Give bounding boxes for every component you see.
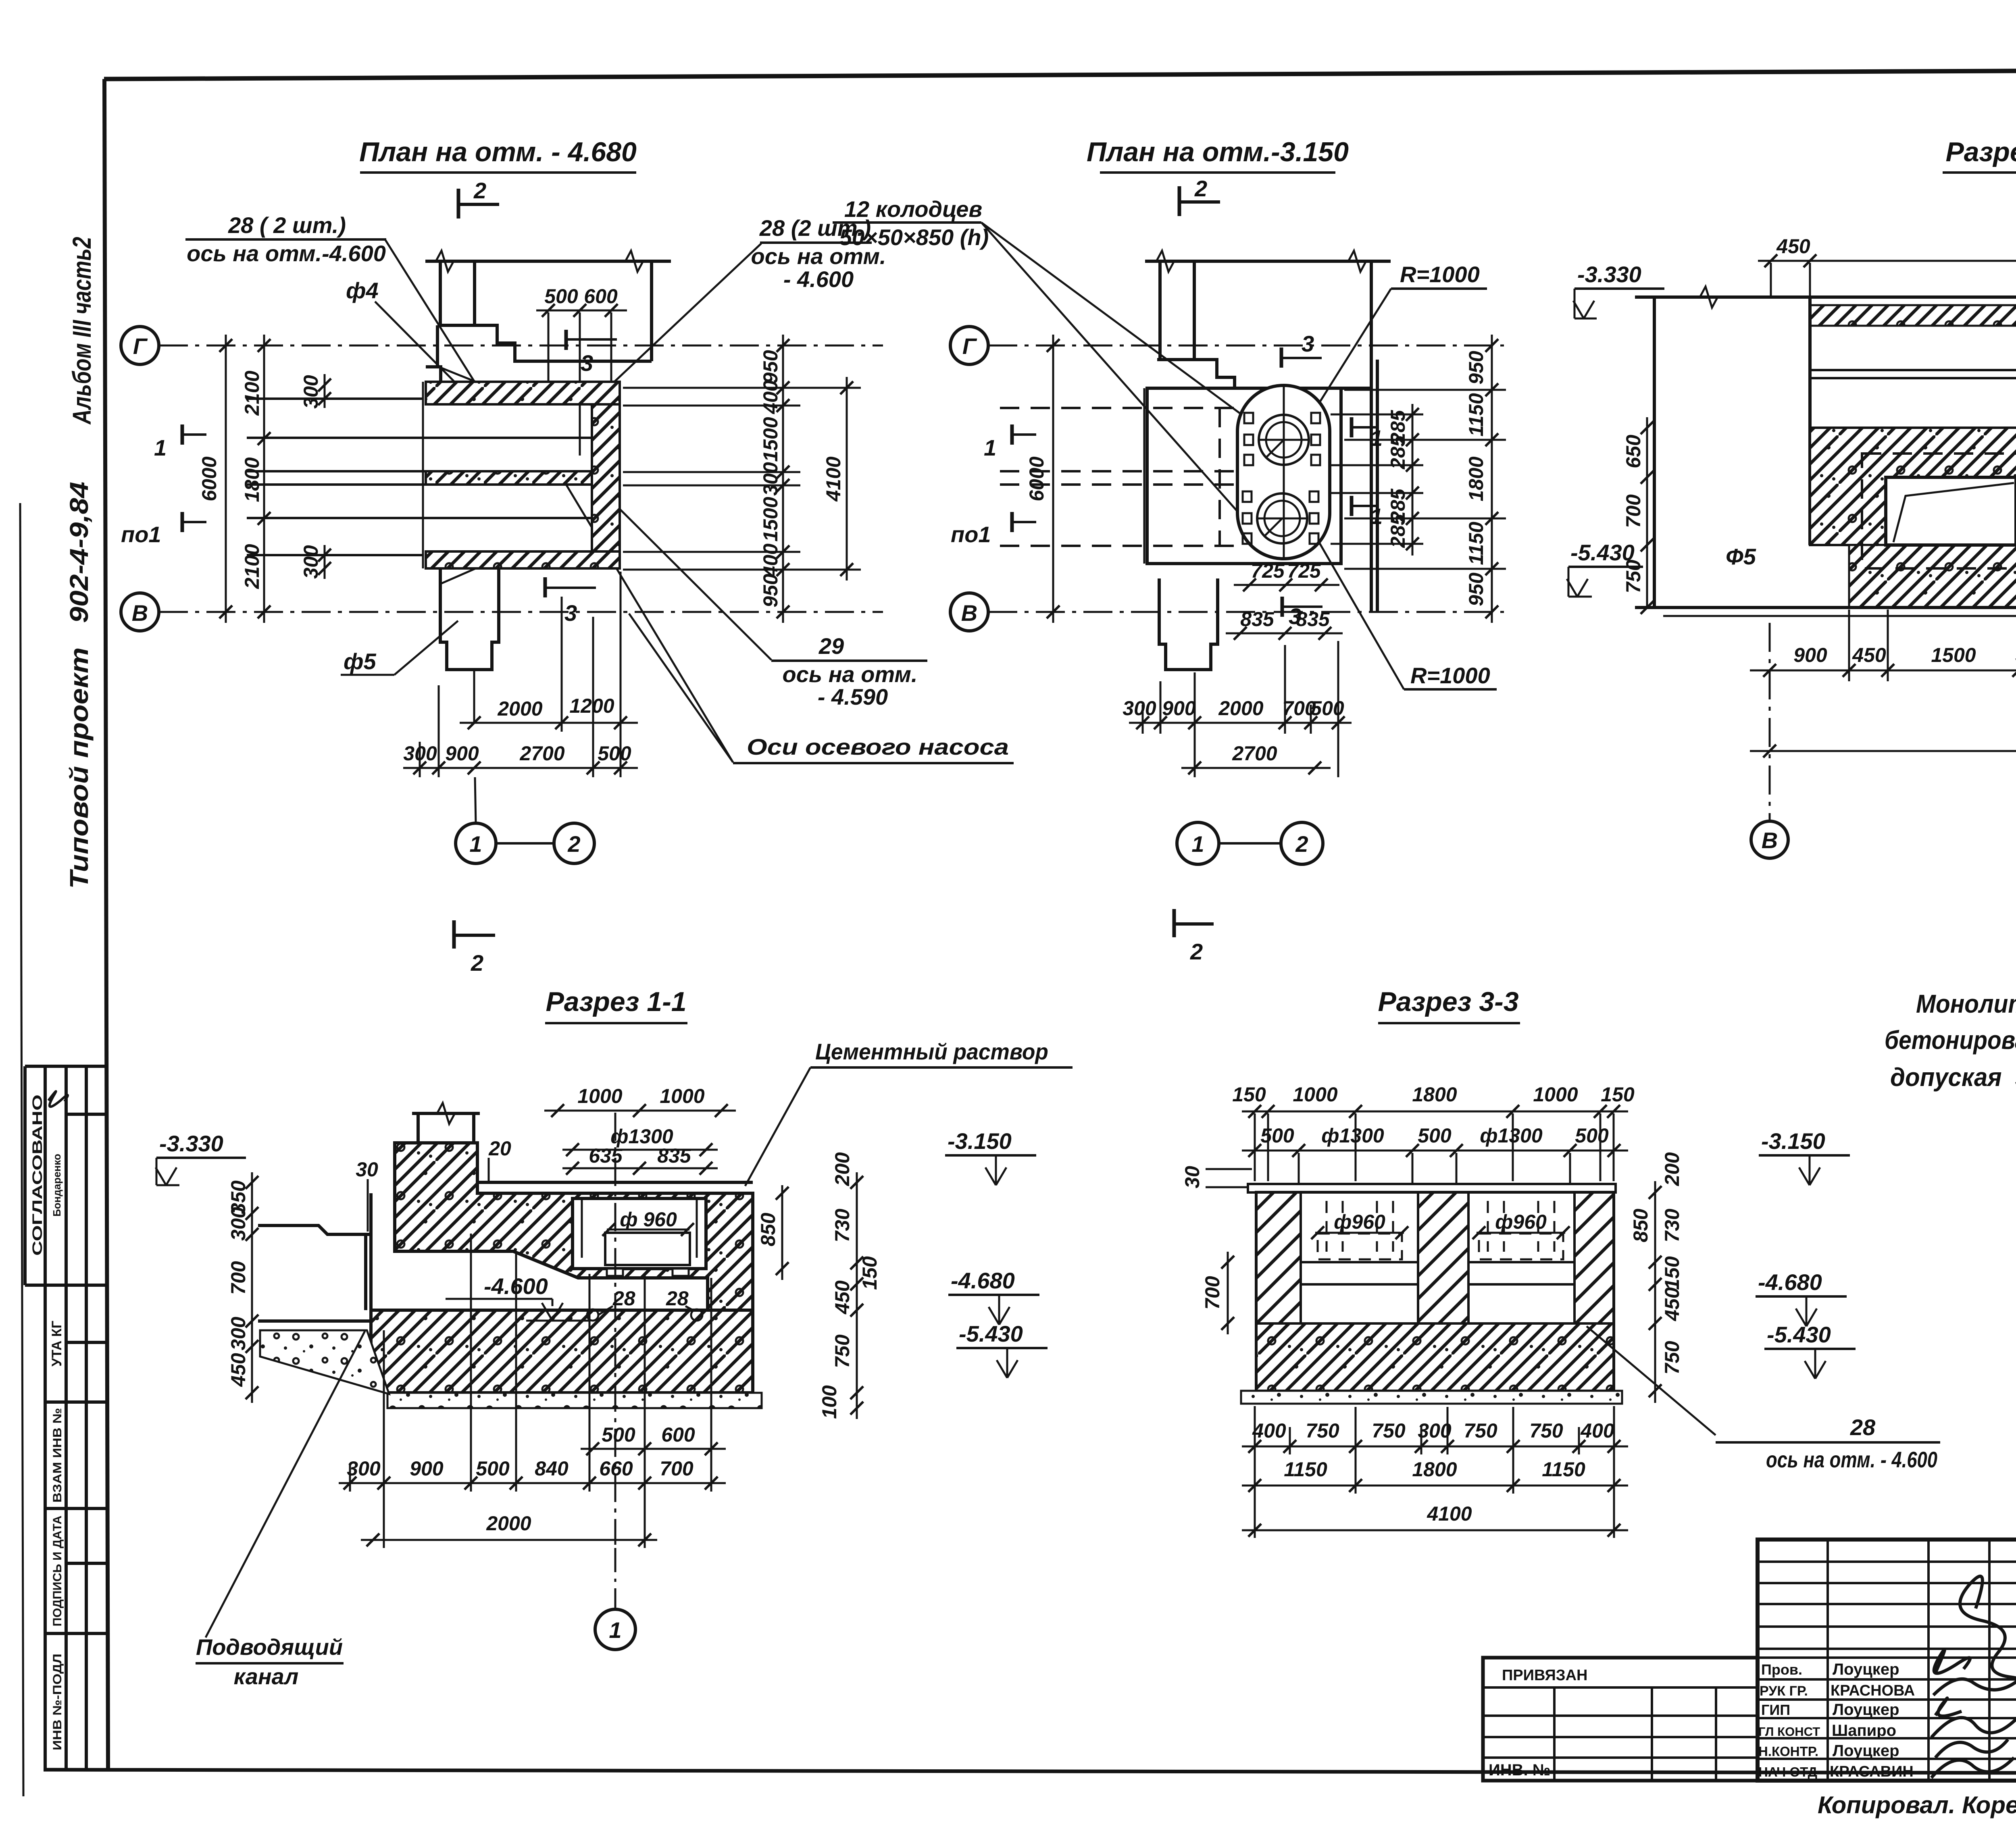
foundation hatched top band [426,382,620,404]
bottom dim 300 900 500 840 660 700 [339,1482,726,1484]
dim row 500 Ф1300 500 Ф1300 500 [1242,1150,1628,1152]
svg-text:1150: 1150 [1465,522,1487,565]
section marks 1 right [1350,417,1354,437]
axis line Г [159,345,883,347]
axis circle 1 [1177,822,1219,864]
axis circle 1 below [614,1548,616,1609]
channel wall lines (left) [247,399,592,555]
svg-text:Разрез 2-2: Разрез 2-2 [1945,137,2016,167]
svg-text:285: 285 [1387,514,1409,548]
dim chain 2100 1800 2100 [263,335,265,623]
left pier hatched [1256,1192,1301,1391]
top dim 150 1000 1800 1000 150 [1242,1111,1628,1113]
svg-text:Ф5: Ф5 [1726,544,1756,569]
title block grid [1483,1540,2016,1781]
room wall top outline [425,260,671,263]
svg-text:150: 150 [1232,1083,1266,1106]
svg-text:850: 850 [1629,1209,1652,1242]
pit stadium outline R=1000 [1237,385,1330,559]
dim chain 950 1150 1800 1150 950 [1491,335,1493,623]
svg-text:750: 750 [1661,1341,1683,1375]
dim chain 6000 (left) [225,335,227,623]
svg-text:300: 300 [300,545,322,579]
svg-text:1800: 1800 [1465,456,1487,501]
svg-text:ось на отм.: ось на отм. [783,662,918,687]
dim row 900 450 1500 300 1500 450 300 [1750,670,2016,672]
wire between circles 1 and 2 [496,842,554,845]
svg-text:В: В [961,600,977,626]
left dim chain 350 300 700 300 450 [251,1172,253,1403]
svg-text:450: 450 [227,1353,250,1387]
svg-text:- 4.590: - 4.590 [818,684,888,709]
inner box Ф960 [605,1233,690,1265]
svg-text:730: 730 [831,1209,854,1242]
svg-text:12 колодцев: 12 колодцев [844,196,982,222]
svg-text:1000: 1000 [660,1085,704,1107]
svg-text:300: 300 [759,462,782,496]
title block outer frame [1758,1540,2016,1781]
svg-text:1800: 1800 [1412,1458,1457,1481]
dim 300 900 2700 500 [403,767,638,769]
svg-text:750: 750 [1529,1419,1563,1442]
corner diagonals [441,368,476,382]
bottom stub [1159,578,1218,670]
svg-text:500: 500 [476,1457,510,1480]
svg-text:Подводящий: Подводящий [196,1634,343,1660]
svg-text:450: 450 [831,1280,854,1315]
svg-text:1: 1 [469,831,482,857]
dim 300 small (top) [324,374,326,408]
dim 6000 [1750,750,2016,752]
top slab hatched band [1810,305,2016,326]
svg-text:по1: по1 [951,522,991,547]
section mark 2 bottom [1173,909,1176,937]
svg-text:6000: 6000 [1025,456,1048,501]
svg-text:ПРИВЯЗАН: ПРИВЯЗАН [1502,1667,1587,1684]
svg-text:2: 2 [471,950,483,976]
svg-text:1000: 1000 [1533,1083,1578,1106]
svg-text:1800: 1800 [1412,1083,1457,1106]
svg-text:1200: 1200 [569,695,614,717]
top dim 1000 1000 [544,1110,736,1112]
svg-text:900: 900 [445,742,479,765]
svg-text:650: 650 [1622,435,1645,468]
svg-text:ИНВ №-ПОДЛ: ИНВ №-ПОДЛ [51,1654,64,1750]
dim 300 small (bottom) [324,545,326,579]
leader wire from left 28 label [385,239,476,384]
central pier hatched [1418,1192,1468,1323]
anchor plates 28 [607,1269,623,1276]
svg-text:1150: 1150 [1284,1458,1327,1481]
section mark 2 bottom [452,920,456,949]
svg-text:2700: 2700 [1232,742,1277,765]
svg-text:Пров.: Пров. [1761,1661,1802,1678]
section mark 1 left [181,424,184,445]
axis line Г [988,345,1504,347]
svg-text:Г: Г [133,333,148,359]
svg-text:3: 3 [581,350,593,376]
axis line to circle 1 [475,777,476,823]
bottom dim 500 600 [581,1448,726,1450]
svg-text:1500: 1500 [759,417,782,462]
floor top line [1635,295,2016,299]
svg-text:100: 100 [818,1385,841,1419]
svg-text:Копировал. Корецкая 19994-04: Копировал. Корецкая 19994-04 17 [1818,1791,2016,1818]
svg-text:500: 500 [1260,1124,1294,1147]
svg-text:1: 1 [1370,425,1383,451]
svg-text:2: 2 [1194,176,1207,201]
dim chain 4100 (right outer) [846,377,848,580]
wells white chambers [1301,1192,1418,1323]
svg-text:2000: 2000 [1218,697,1263,720]
sheet border: left line [104,79,108,1771]
bottom dim 400 750 750 300 750 750 400 [1242,1446,1628,1448]
svg-text:-4.680: -4.680 [1758,1269,1822,1295]
svg-text:РУК ГР.: РУК ГР. [1760,1683,1808,1699]
svg-text:300: 300 [1418,1419,1452,1442]
svg-text:-3.330: -3.330 [1577,262,1641,287]
top dim 450 5100 450 [1758,260,2016,262]
signature squiggles [1931,1576,2016,1778]
svg-text:400: 400 [759,380,782,414]
floor lines [477,1181,753,1184]
title block left extension box [1483,1658,1758,1781]
svg-text:R=1000: R=1000 [1410,663,1490,688]
dim chain 285 x4 [1412,404,1414,556]
right dim chain [1654,1181,1656,1403]
svg-text:500: 500 [1310,697,1344,720]
svg-text:-4.680: -4.680 [951,1268,1015,1293]
wall inner face with niche [437,325,652,361]
svg-text:400: 400 [1252,1419,1286,1442]
dim 2700 [1181,767,1331,769]
svg-text:730: 730 [1661,1209,1683,1242]
svg-text:150: 150 [1601,1083,1635,1106]
bottom blinding stipple band [387,1393,762,1408]
foundation hatched bottom band [426,551,620,568]
svg-text:1500: 1500 [759,497,782,541]
pump well circle upper [1259,415,1309,465]
svg-text:по1: по1 [121,522,161,547]
svg-text:Бондаренко: Бондаренко [51,1154,63,1217]
svg-text:2000: 2000 [497,697,542,720]
svg-text:450: 450 [1661,1287,1683,1321]
channel underlay stipple wedge [260,1330,389,1394]
svg-text:2100: 2100 [241,544,263,589]
anchor wells squares (12 шт) [1243,413,1320,544]
svg-text:150: 150 [1661,1256,1683,1290]
body outer rect [1256,1192,1614,1391]
svg-text:30: 30 [356,1158,378,1181]
bottom blinding stipple band [1241,1391,1622,1404]
section mark 1 left [1010,424,1014,445]
bottom dim 1150 1800 1150 [1242,1485,1628,1487]
bottom extension lines [420,572,621,777]
section mark 3 bottom [544,577,547,597]
svg-text:635: 635 [589,1144,623,1167]
svg-text:4100: 4100 [822,456,845,501]
lower hatched mass [371,1310,753,1393]
svg-text:30: 30 [1181,1166,1204,1188]
svg-text:835: 835 [1296,608,1330,630]
svg-text:2: 2 [1295,831,1308,857]
foundation hatched middle band [426,471,592,485]
extension lines to dims [350,1234,711,1548]
dim 300 900 2000 700 500 [1129,722,1352,724]
svg-text:ось на отм. - 4.600: ось на отм. - 4.600 [1766,1447,1937,1472]
svg-text:3: 3 [564,600,577,626]
svg-text:-3.150: -3.150 [948,1128,1012,1154]
svg-text:28: 28 [1850,1415,1876,1440]
svg-text:План на отм.-3.150: План на отм.-3.150 [1087,137,1349,167]
svg-text:1150: 1150 [1542,1458,1585,1481]
axis dash-dot verticals [1769,623,1771,822]
svg-text:-3.330: -3.330 [159,1131,223,1156]
right pier hatched [1574,1192,1614,1391]
svg-text:900: 900 [410,1457,444,1480]
stamp signature squiggle [48,1091,68,1107]
svg-text:-5.430: -5.430 [1767,1322,1831,1347]
svg-text:900: 900 [1793,644,1827,666]
svg-text:300: 300 [403,742,437,765]
svg-text:29: 29 [818,633,844,659]
dim 700 left [1227,1252,1229,1334]
bottom stub [440,569,499,670]
svg-text:300: 300 [347,1457,381,1480]
svg-text:2: 2 [1190,939,1203,964]
extension lines right [1331,390,1506,569]
svg-text:725: 725 [1251,560,1285,582]
svg-text:840: 840 [535,1457,569,1480]
sheet border: top line [104,69,2016,79]
axis circle 2 [1281,822,1323,864]
svg-text:- 4.600: - 4.600 [783,266,854,292]
svg-text:НАЧ ОТД: НАЧ ОТД [1758,1764,1817,1779]
section mark 2 (top) [1178,186,1181,216]
svg-text:700: 700 [1622,494,1645,528]
right dim chains [781,1185,783,1280]
section mark по1 left [1010,512,1014,532]
svg-text:СОГЛАСОВАНО: СОГЛАСОВАНО [30,1094,45,1256]
wire between circles [1219,842,1281,845]
dim 2000 1200 [460,722,638,724]
svg-text:-5.430: -5.430 [1570,540,1635,565]
svg-text:3: 3 [1302,331,1314,356]
svg-text:1150: 1150 [1465,393,1487,437]
axis line В [988,611,1504,613]
svg-text:2: 2 [567,831,580,857]
svg-text:канал: канал [234,1664,299,1689]
svg-text:200: 200 [831,1152,854,1186]
svg-text:В: В [132,600,148,626]
wall inner face with niche [1157,360,1371,388]
svg-text:500: 500 [544,285,578,308]
svg-text:300: 300 [227,1317,250,1350]
svg-text:ф1300: ф1300 [1321,1124,1384,1147]
svg-text:1: 1 [984,435,996,460]
svg-text:ф1300: ф1300 [1480,1124,1543,1147]
svg-text:450: 450 [1776,235,1810,258]
svg-text:ПОДПИСЬ И ДАТА: ПОДПИСЬ И ДАТА [51,1516,64,1627]
svg-text:Лоуцкер: Лоуцкер [1833,1742,1899,1760]
bottom dim 4100 [1242,1529,1628,1531]
top formwork slab thin band [1248,1184,1616,1192]
room wall top outline [1145,260,1391,263]
axis circle В [121,593,159,631]
walls verticals [1654,297,2016,608]
svg-text:600: 600 [584,285,618,308]
svg-text:28: 28 [666,1287,689,1310]
hidden dashed rectangle [1862,454,2016,568]
svg-text:ф5: ф5 [344,649,377,674]
svg-text:750: 750 [1464,1419,1497,1442]
svg-text:В: В [1762,828,1778,853]
svg-text:Лоуцкер: Лоуцкер [1833,1660,1899,1678]
label 28 ось на отм.-4.600 [1587,1326,1716,1435]
bottom dim 2000 [361,1539,657,1541]
extension verticals bottom [1255,1406,1614,1538]
axis circle Г [121,327,159,364]
extension lines from dims down [1255,1113,1614,1193]
svg-text:Разрез 1-1: Разрез 1-1 [546,986,686,1017]
svg-text:ось на отм.-4.600: ось на отм.-4.600 [187,241,386,266]
svg-text:500: 500 [1575,1124,1609,1147]
vertical centerline through section [614,1113,616,1545]
pump block white left [1886,477,2016,545]
dim 725 725 [1234,584,1339,586]
axis circle Г [950,327,988,364]
svg-text:1: 1 [1191,831,1204,857]
svg-text:Альбом III часть2: Альбом III часть2 [67,237,96,425]
svg-text:Монолитный фундамент под обор: Монолитный фундамент под оборудование Ф0… [1916,989,2016,1018]
svg-text:28 ( 2 шт.): 28 ( 2 шт.) [228,212,346,238]
axis circle В [1751,821,1788,858]
channel walls left [258,1193,371,1321]
formwork double edge left [422,382,424,568]
section mark 2 (top) [457,189,460,218]
upper hatched mass [395,1143,753,1310]
dim Ф1300 [562,1149,718,1151]
right extension lines [623,388,861,570]
dim 835 835 [1226,632,1343,635]
svg-text:500: 500 [602,1423,635,1446]
pump well circle lower [1257,493,1307,543]
axis circle 1 [456,823,496,863]
svg-text:2100: 2100 [241,370,263,416]
svg-text:200: 200 [1661,1152,1683,1186]
svg-text:1500: 1500 [1931,644,1976,666]
foundation hatched right band [592,404,620,551]
svg-text:950: 950 [1465,351,1487,385]
svg-text:835: 835 [1240,608,1275,630]
bottom extension lines [1849,610,2016,681]
section mark 3 (bottom inside) [1281,597,1284,617]
leader wires from Оси label [561,476,733,762]
sheet edge thin line far left [20,503,23,1796]
top stub above foundation [412,1113,480,1143]
svg-text:6000: 6000 [198,456,221,501]
hidden outline dashed [1000,408,1237,546]
foundation outer rect [1147,388,1341,564]
svg-text:-3.150: -3.150 [1761,1128,1825,1154]
svg-text:ф960: ф960 [1495,1211,1547,1233]
left stamp table [25,1066,107,1771]
bottom extension lines [1143,641,1338,777]
lower strip hatched [1849,545,2016,608]
svg-text:700: 700 [227,1261,250,1295]
svg-text:20: 20 [488,1137,511,1160]
leader wires from колодцев label [981,223,1252,422]
svg-text:Шапиро: Шапиро [1832,1722,1896,1739]
well internal lines left [1301,1261,1418,1263]
svg-text:ГИП: ГИП [1761,1702,1790,1718]
svg-text:допуская зазора между ними.: допуская зазора между ними. [1890,1063,2016,1092]
svg-text:750: 750 [1306,1419,1339,1442]
svg-text:Н.КОНТР.: Н.КОНТР. [1758,1744,1818,1759]
svg-text:450: 450 [1852,644,1886,666]
bottom line of pit [1635,606,2016,609]
svg-text:Разрез 3-3: Разрез 3-3 [1378,986,1518,1017]
svg-text:1: 1 [154,435,167,460]
svg-text:КРАСНОВА: КРАСНОВА [1831,1682,1915,1699]
svg-text:4100: 4100 [1427,1502,1472,1525]
svg-text:2700: 2700 [519,742,564,765]
svg-text:700: 700 [1201,1276,1224,1310]
stadium centerline [1283,385,1285,559]
svg-text:850: 850 [757,1213,779,1246]
foundation mass hatched [1810,428,2016,545]
svg-text:КРАСАВИН: КРАСАВИН [1830,1763,1914,1780]
svg-text:Оси осевого насоса: Оси осевого насоса [747,734,1009,759]
svg-text:150: 150 [858,1256,881,1290]
svg-text:Типовой проект 902-4-9,84: Типовой проект 902-4-9,84 [65,482,94,889]
dim 635 835 [562,1167,718,1169]
svg-text:ф 960: ф 960 [620,1208,677,1231]
svg-text:900: 900 [1162,697,1196,720]
axis circle В [950,593,988,631]
left dim chain 650 700 750 [1646,417,1648,608]
svg-text:285: 285 [1387,435,1409,470]
svg-text:750: 750 [1372,1419,1406,1442]
svg-text:400: 400 [759,543,782,578]
svg-text:1800: 1800 [241,457,263,502]
beam lines under slab [1810,369,2016,371]
sheet border: bottom line [44,1770,2016,1774]
section mark по1 left [181,512,184,532]
svg-text:1: 1 [609,1617,621,1643]
svg-text:бетонировать враспор с фундам: бетонировать враспор с фундаментами Ф4 и… [1885,1026,2016,1055]
svg-text:50×50×850 (h): 50×50×850 (h) [839,225,989,250]
svg-text:Г: Г [962,333,977,359]
svg-text:План на отм. - 4.680: План на отм. - 4.680 [359,137,637,167]
well internal lines right [1468,1261,1574,1263]
svg-text:950: 950 [1465,572,1487,606]
svg-text:УТА КГ: УТА КГ [49,1321,65,1367]
svg-text:Цементный раствор: Цементный раствор [815,1039,1048,1064]
dim chain 6000 (left) [1052,335,1054,623]
leader wire from right 28 label [589,243,761,405]
svg-text:400: 400 [1580,1419,1614,1442]
dim chain 950 400 1500 300 1500 400 950 (right) [782,335,784,623]
svg-text:1: 1 [1370,504,1383,529]
svg-text:2000: 2000 [486,1512,531,1535]
svg-text:950: 950 [759,350,782,384]
dim 500 600 (niche) [536,310,627,312]
pit slope line [513,1251,578,1278]
svg-text:660: 660 [599,1457,633,1480]
svg-text:600: 600 [661,1423,695,1446]
svg-text:300: 300 [227,1207,250,1241]
